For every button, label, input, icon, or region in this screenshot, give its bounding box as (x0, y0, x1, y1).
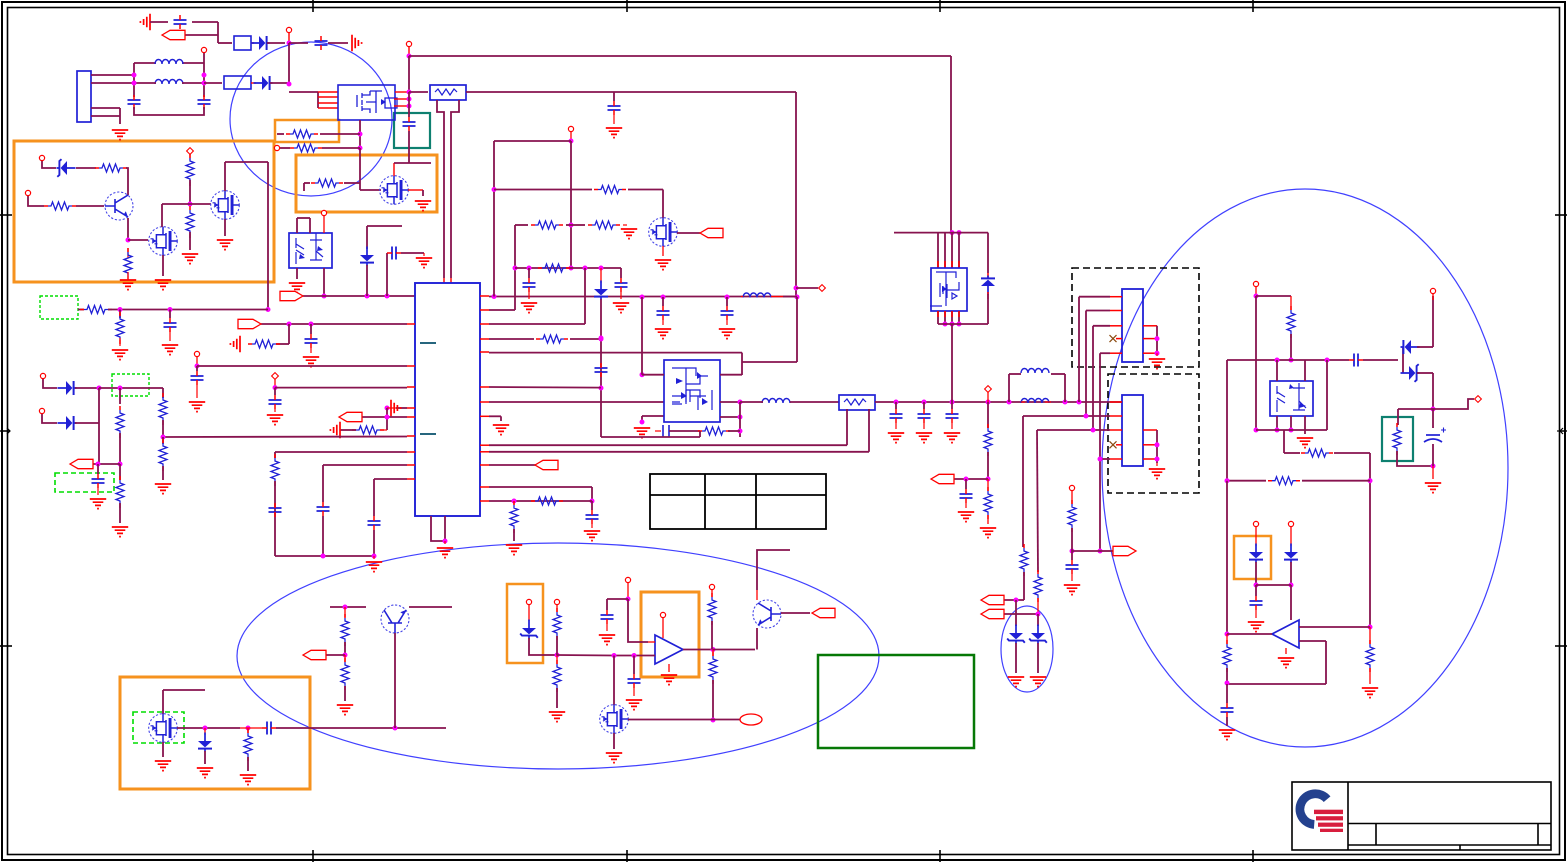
border tick (939, 850, 941, 862)
wire (655, 430, 661, 432)
wire (189, 154, 191, 160)
junction (922, 400, 927, 405)
capacitor (198, 95, 211, 109)
junction (287, 322, 292, 327)
wire (1156, 430, 1158, 463)
highlight box O6 (641, 592, 699, 677)
wire to IC (275, 387, 407, 389)
junction (343, 605, 348, 610)
wire (1100, 352, 1110, 354)
pin (951, 261, 953, 268)
ground (626, 700, 642, 710)
ground (337, 705, 353, 715)
wire (386, 408, 388, 430)
junction (1155, 457, 1160, 462)
wire (322, 147, 360, 149)
junction (599, 266, 604, 271)
pin wire (394, 105, 409, 107)
ground (661, 675, 677, 685)
wire (614, 655, 655, 657)
wire (296, 218, 298, 233)
junction (1036, 612, 1041, 617)
wire (163, 689, 205, 691)
pin (321, 210, 326, 215)
wire (408, 131, 410, 163)
pin (987, 292, 989, 299)
wire (556, 688, 558, 708)
junction (203, 726, 208, 731)
ground (303, 357, 319, 367)
port (162, 30, 185, 39)
junction (385, 294, 390, 299)
wire (1226, 668, 1228, 684)
wire (162, 255, 164, 276)
resistor (290, 144, 322, 152)
wire (1397, 451, 1433, 466)
wire (1256, 295, 1291, 297)
wire (134, 107, 204, 115)
wire (310, 348, 312, 353)
pin (951, 311, 953, 317)
junction (1007, 400, 1012, 405)
junction (1063, 400, 1068, 405)
wire (1284, 452, 1300, 454)
wire to IC (197, 365, 407, 367)
junction (661, 295, 666, 300)
resistor (1366, 640, 1374, 672)
capacitor (317, 502, 330, 516)
capacitor (1221, 703, 1234, 717)
wire (240, 727, 262, 729)
junction (97, 386, 102, 391)
wire (204, 728, 206, 735)
ground (1149, 469, 1165, 479)
capacitor (1250, 596, 1263, 610)
wire (781, 612, 810, 614)
pin (985, 386, 992, 393)
wire (606, 599, 608, 610)
wire (489, 486, 592, 488)
capacitor (1066, 560, 1079, 574)
IC pin (407, 365, 415, 367)
wire (712, 650, 714, 657)
resistor (1034, 570, 1042, 602)
wire (274, 379, 276, 387)
wire (423, 253, 425, 256)
wire (494, 140, 571, 142)
wire (515, 267, 621, 269)
wire (1037, 598, 1039, 614)
wire (739, 402, 741, 437)
wire (1417, 372, 1433, 374)
wire (1276, 360, 1278, 381)
wire (1099, 353, 1101, 551)
wire (340, 429, 356, 431)
highlight ellipse 4 (1001, 606, 1053, 692)
pin (274, 145, 279, 150)
wire (600, 268, 602, 283)
wire (987, 515, 989, 524)
pin (406, 41, 411, 46)
IC pin (480, 444, 489, 446)
wire (218, 42, 232, 44)
wire (1432, 373, 1434, 409)
wire (274, 388, 276, 395)
pin wire (395, 91, 409, 93)
capacitor (174, 15, 187, 29)
junction (126, 238, 131, 243)
wire (444, 541, 446, 544)
IC pin (407, 407, 415, 409)
wire (127, 218, 129, 240)
zener diode ZD5 (1401, 364, 1420, 382)
junction (512, 499, 517, 504)
junction (1431, 464, 1436, 469)
junction (1368, 625, 1373, 630)
teal box T2 (1382, 417, 1413, 461)
diode D3 (360, 247, 374, 266)
wire (662, 297, 664, 306)
resistor (116, 476, 124, 508)
junction (894, 400, 899, 405)
resistor (311, 179, 343, 187)
wire (162, 420, 164, 437)
junction (1289, 583, 1294, 588)
pin wire (1143, 352, 1157, 354)
junction (599, 336, 604, 341)
highlight box O4 (120, 677, 310, 789)
junction (1431, 407, 1436, 412)
ground (1149, 359, 1165, 369)
junction (957, 230, 962, 235)
zener diode ZD4 (520, 620, 538, 639)
junction (640, 420, 645, 425)
junction (118, 307, 123, 312)
resistor (984, 487, 992, 519)
wire (923, 402, 925, 409)
ground (391, 400, 401, 416)
resistor (116, 406, 124, 438)
junction (321, 554, 326, 559)
IC pin (480, 415, 489, 417)
resistor box R100 (430, 85, 466, 100)
ground (1219, 730, 1235, 740)
wire (393, 163, 395, 176)
IC bottom pin wire (444, 516, 446, 541)
wire (326, 654, 345, 656)
wire (1290, 296, 1292, 310)
port (1113, 546, 1136, 555)
wire (190, 203, 211, 205)
wire (1003, 613, 1038, 615)
pin wire (1143, 444, 1157, 446)
wire (196, 357, 198, 366)
wire (1290, 334, 1292, 360)
resistor box zigzag (435, 89, 457, 95)
wire (923, 423, 925, 429)
rail (489, 296, 796, 298)
wire (720, 401, 740, 403)
ground (1425, 483, 1441, 493)
wire (394, 162, 431, 164)
pin wire (1143, 325, 1157, 327)
junction (957, 322, 962, 327)
wire (951, 402, 953, 409)
ground (162, 345, 178, 355)
wire (276, 148, 278, 151)
inductor L4 (762, 399, 790, 404)
green dashed box G4 (133, 712, 184, 743)
wire (951, 324, 953, 402)
ground (621, 229, 637, 239)
resistor (124, 248, 132, 280)
wire (133, 63, 135, 97)
wire (408, 189, 423, 191)
wire (1100, 550, 1115, 552)
pin wire (318, 96, 338, 98)
port oval (740, 714, 762, 725)
wire (267, 162, 269, 309)
resistor (510, 501, 518, 533)
wire (662, 246, 664, 256)
junction (393, 726, 398, 731)
capacitor (721, 306, 734, 320)
wire (380, 429, 387, 431)
opto-coupler U2 (1270, 381, 1313, 416)
junction (287, 82, 292, 87)
wire (613, 733, 615, 749)
wire (224, 219, 226, 236)
ground (634, 428, 650, 438)
wire (42, 161, 56, 168)
wire (591, 524, 593, 528)
mosfet Q2 (149, 227, 178, 256)
pin wire (1143, 429, 1157, 431)
wire (408, 47, 410, 56)
border tick (0, 645, 12, 647)
ground (606, 753, 622, 763)
capacitor (387, 247, 401, 260)
junction (1070, 549, 1075, 554)
port (931, 474, 954, 483)
wire (251, 82, 256, 84)
wire (1092, 326, 1094, 430)
junction (309, 322, 314, 327)
wire (78, 309, 84, 311)
junction (513, 266, 518, 271)
wire (320, 133, 360, 135)
wire (728, 430, 740, 432)
ground (189, 402, 205, 412)
wire (127, 248, 129, 258)
wire (720, 374, 742, 376)
wire (1402, 347, 1404, 373)
wire (182, 82, 204, 84)
IC pin (480, 500, 489, 502)
ground (1248, 622, 1264, 632)
wire (134, 62, 156, 64)
wire (360, 189, 381, 191)
wire (189, 180, 191, 204)
junction (443, 539, 448, 544)
wire (1086, 310, 1110, 312)
opto-mosfet U1 (338, 85, 397, 120)
resistor (244, 729, 252, 761)
wire (162, 203, 190, 205)
junction (738, 400, 743, 405)
ground (719, 329, 735, 339)
fuse F2 (224, 76, 251, 89)
pin (1288, 521, 1293, 526)
wire (373, 530, 375, 556)
wire (204, 751, 206, 764)
wire (1051, 373, 1065, 375)
wire (1290, 585, 1292, 620)
port (535, 460, 558, 469)
junction (1289, 358, 1294, 363)
mosfet Q6 (149, 714, 178, 743)
pin (1430, 288, 1435, 293)
pin wire (318, 102, 338, 104)
mosfet Q5 (649, 218, 678, 247)
junction (1368, 478, 1373, 483)
wire (1226, 634, 1228, 644)
junction (1084, 414, 1089, 419)
resistor (553, 608, 561, 640)
wire to IC (374, 478, 407, 480)
wire (119, 388, 121, 404)
wire to IC (324, 295, 415, 297)
wire (965, 503, 967, 508)
rail (489, 401, 720, 403)
wire (401, 252, 424, 254)
resistor (186, 206, 194, 238)
wire (328, 42, 348, 44)
wire (323, 216, 325, 233)
capacitor (523, 278, 536, 292)
junction (266, 307, 271, 312)
junction (950, 322, 955, 327)
ground (90, 499, 106, 509)
wire (584, 268, 586, 324)
ground (1297, 438, 1313, 448)
wire (323, 268, 325, 296)
wire (93, 463, 120, 465)
inductor L3 (743, 293, 771, 298)
junction (246, 726, 251, 731)
border tick (626, 850, 628, 862)
border tick (1555, 214, 1567, 216)
highlight ellipse 3 (1102, 189, 1508, 747)
wire (987, 479, 989, 491)
transistor Q7 (381, 605, 409, 633)
wire (1432, 296, 1434, 347)
wire (556, 636, 558, 655)
wire (1398, 408, 1433, 410)
inductor L6 (1021, 399, 1049, 404)
IC pin (407, 386, 415, 388)
wire (1369, 668, 1371, 684)
wire (591, 501, 593, 510)
wire (965, 479, 967, 489)
wire (1037, 614, 1039, 626)
port (700, 228, 723, 237)
wire (373, 556, 375, 559)
pin wire (1143, 458, 1157, 460)
wire (359, 183, 361, 190)
wire (362, 416, 407, 418)
junction (1275, 358, 1280, 363)
wire (601, 436, 700, 438)
zener diode ZD3 (1029, 625, 1047, 644)
fuse F1 (234, 36, 251, 50)
resistor (538, 264, 570, 272)
green dashed box G2 (112, 374, 149, 396)
wire (712, 680, 714, 720)
wire (275, 555, 374, 557)
wire (726, 320, 728, 325)
wire (309, 218, 311, 233)
junction (1275, 428, 1280, 433)
wire (367, 225, 402, 227)
ground (112, 527, 128, 537)
pin (187, 148, 194, 155)
rail (875, 401, 1122, 403)
ground (584, 531, 600, 541)
wire (344, 182, 360, 184)
diode D2 (254, 76, 273, 90)
capacitor (128, 95, 141, 109)
table (650, 474, 826, 529)
resistor (709, 652, 717, 684)
wire (648, 641, 655, 643)
wire (225, 161, 268, 163)
wire (1009, 373, 1021, 375)
junction (794, 286, 799, 291)
ground (197, 768, 213, 778)
long vertical (600, 299, 602, 437)
pin (568, 126, 573, 131)
wire (642, 374, 664, 376)
border tick (1252, 0, 1254, 12)
ground (888, 433, 904, 443)
IC pin (480, 351, 489, 353)
ground (1362, 688, 1378, 698)
green dashed box G1 (40, 296, 78, 319)
pin (1475, 396, 1482, 403)
wire (276, 343, 289, 345)
junction (640, 372, 645, 377)
pin (286, 27, 291, 32)
IC pin (407, 416, 415, 418)
junction (96, 462, 101, 467)
resistor (1223, 640, 1231, 672)
junction (202, 73, 207, 78)
border tick (1555, 645, 1567, 647)
wire (203, 53, 205, 97)
wire (1023, 415, 1110, 417)
wire (128, 239, 148, 241)
capacitor (946, 409, 959, 423)
wire (987, 233, 989, 273)
pin (1110, 310, 1122, 312)
wire (489, 309, 515, 311)
wire (711, 621, 713, 650)
pin wire (318, 107, 338, 109)
wire (868, 409, 870, 452)
junction (168, 307, 173, 312)
resistor box zigzag (844, 399, 866, 405)
